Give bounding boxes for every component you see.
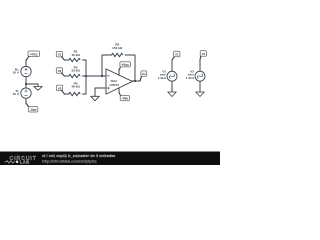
op-amp OA2 LM741 — [106, 69, 132, 94]
svg-text:V1: V1 — [175, 53, 179, 57]
wire feedback right branch — [125, 55, 135, 81]
wire — [83, 59, 87, 61]
wire — [25, 98, 27, 103]
ground (V1 source) — [168, 92, 177, 97]
flag Vo (output) — [140, 71, 147, 81]
wire bus to inverting input — [86, 75, 106, 77]
node output junction — [134, 80, 136, 82]
wire — [25, 60, 27, 67]
flag V1 (source) — [172, 51, 180, 60]
wire — [199, 60, 201, 72]
ground (left supply) — [34, 86, 42, 90]
ground (V2 source) — [196, 92, 205, 97]
wire feedback left branch — [102, 55, 112, 76]
wire summing bus — [85, 60, 87, 94]
wire — [83, 75, 87, 77]
voltage source B+ 10V — [13, 66, 32, 76]
svg-text:LM741: LM741 — [109, 83, 119, 87]
flag V3 (input) — [56, 85, 64, 94]
flag +Vcc (left supply) — [26, 51, 39, 60]
flag -Vee (op-amp) — [119, 92, 130, 100]
wire — [171, 81, 173, 92]
wire — [64, 93, 69, 95]
wire — [199, 81, 201, 92]
flag +Vcc (op-amp) — [119, 62, 131, 70]
svg-text:1 kHz: 1 kHz — [158, 76, 167, 80]
flag -Vee (left supply) — [26, 104, 38, 113]
flag V2 (source) — [200, 51, 207, 60]
voltage source B- 10V — [13, 88, 32, 98]
svg-text:V3: V3 — [58, 86, 62, 90]
wire — [25, 77, 27, 88]
svg-text:-Vee: -Vee — [122, 97, 129, 101]
svg-text:15 kΩ: 15 kΩ — [71, 53, 80, 57]
svg-text:10 V: 10 V — [13, 92, 20, 96]
svg-text:V1: V1 — [58, 53, 62, 57]
svg-text:V2: V2 — [58, 69, 62, 73]
svg-text:V2: V2 — [202, 52, 206, 56]
svg-text:Vo: Vo — [142, 72, 146, 76]
svg-text:150 kΩ: 150 kΩ — [112, 46, 123, 50]
ground (op-amp input) — [91, 96, 100, 101]
flag V1 (input) — [56, 51, 64, 60]
svg-text:+Vcc: +Vcc — [30, 52, 38, 56]
wire — [64, 59, 69, 61]
svg-text:33 kΩ: 33 kΩ — [71, 69, 80, 73]
svg-text:10 V: 10 V — [13, 71, 20, 75]
resistor R1 15k — [69, 50, 81, 62]
svg-text:49 kΩ: 49 kΩ — [71, 85, 80, 89]
wire to ground — [26, 84, 38, 86]
wire output — [132, 80, 140, 82]
svg-text:1 kHz: 1 kHz — [186, 76, 195, 80]
resistor R4 49k — [69, 81, 81, 95]
wire — [83, 93, 87, 95]
wire non-inverting input to ground — [95, 88, 106, 96]
footer bar — [0, 152, 220, 166]
resistor R2 150k — [112, 43, 123, 57]
wire — [171, 60, 173, 72]
voltage source V1 sine 1kHz — [158, 70, 177, 82]
node junction — [25, 83, 27, 85]
flag V2 (input) — [56, 68, 64, 76]
wire — [64, 75, 69, 77]
node feedback junction — [101, 75, 103, 77]
CircuitLab logo — [5, 156, 37, 165]
svg-text:ct / ce1 ecp11 b_sumador de 3: ct / ce1 ecp11 b_sumador de 3 entradas — [42, 153, 115, 158]
node bus junction — [85, 75, 87, 77]
resistor R3 33k — [69, 65, 81, 77]
svg-text:http://circuitlab.com/c/dytphq: http://circuitlab.com/c/dytphq — [42, 159, 97, 164]
voltage source V2 sine 1kHz — [186, 70, 205, 82]
svg-text:-Vee: -Vee — [30, 108, 37, 112]
svg-text:LAB: LAB — [20, 160, 30, 165]
svg-text:+Vcc: +Vcc — [121, 63, 129, 67]
